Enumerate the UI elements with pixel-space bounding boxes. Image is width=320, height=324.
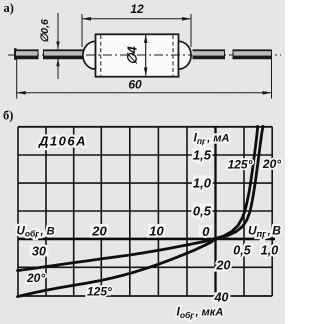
- dimension dia 4 line: [145, 35, 147, 76]
- right lead segment 1: [193, 49, 225, 59]
- crimp dashed line right: [172, 35, 174, 76]
- svg-text:а): а): [4, 1, 14, 15]
- svg-text:В: В: [272, 224, 281, 238]
- dia 4 arrows: [144, 35, 148, 43]
- svg-text:20°: 20°: [262, 157, 281, 171]
- svg-text:20°: 20°: [26, 271, 45, 285]
- current axis (vertical): [214, 126, 216, 296]
- svg-text:1,0: 1,0: [261, 244, 278, 258]
- dimension 12 arrows: [82, 17, 91, 21]
- graph grid: [18, 127, 272, 296]
- dia 0,6 arrows: [56, 42, 59, 50]
- svg-text:1,5: 1,5: [193, 147, 212, 162]
- centerline over body: [86, 54, 196, 56]
- label background boxes (scan-style erase): [30, 148, 231, 302]
- diode body left dome: [83, 41, 96, 69]
- 60 arrows: [17, 91, 26, 95]
- dimension 60: [17, 50, 272, 99]
- svg-text:0,5: 0,5: [193, 203, 212, 218]
- diode body cylinder: [96, 34, 179, 76]
- svg-text:60: 60: [128, 78, 142, 92]
- left lead end cap: [14, 48, 17, 60]
- svg-text:б): б): [3, 109, 13, 123]
- left lead segment 2: [38, 49, 87, 59]
- svg-text:125°: 125°: [87, 285, 112, 299]
- svg-text:0: 0: [202, 224, 210, 239]
- svg-text:30: 30: [32, 245, 46, 259]
- centerline axial dash-dot: [8, 54, 281, 56]
- crimp dashed line left: [100, 35, 102, 76]
- dimension dia 0,6 lines: [57, 13, 59, 79]
- voltage axis (horizontal): [18, 238, 275, 241]
- svg-text:∅0,6: ∅0,6: [39, 19, 51, 43]
- svg-text:0,5: 0,5: [233, 244, 251, 258]
- horizontal grid lines: [18, 126, 272, 128]
- svg-text:1,0: 1,0: [193, 176, 212, 191]
- graph labels: [17, 131, 282, 321]
- svg-text:10: 10: [149, 224, 164, 239]
- svg-text:20: 20: [216, 259, 231, 273]
- curve 125deg (reverse + forward): [18, 126, 258, 296]
- curve 20deg (reverse + forward): [18, 126, 263, 270]
- dimension 12 line: [82, 14, 191, 47]
- svg-text:40: 40: [214, 290, 229, 304]
- diode body right dome: [179, 41, 192, 69]
- right lead segment 2: [233, 49, 272, 59]
- svg-text:∅4: ∅4: [125, 45, 140, 64]
- svg-text:12: 12: [130, 2, 144, 16]
- svg-text:20: 20: [91, 224, 107, 239]
- left lead segment 1: [16, 49, 38, 59]
- vertical grid lines: [17, 127, 19, 296]
- svg-text:125°: 125°: [228, 158, 253, 172]
- svg-text:Д106А: Д106А: [38, 134, 87, 149]
